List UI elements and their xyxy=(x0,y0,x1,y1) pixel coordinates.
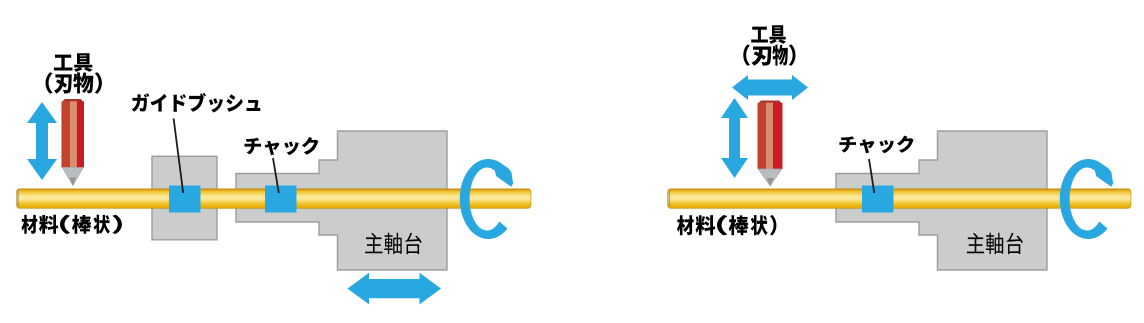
leader line chuck left xyxy=(273,158,279,193)
tool pencil right: tip cone xyxy=(758,169,782,186)
label （刃物） left xyxy=(46,72,102,94)
label チャック left xyxy=(245,137,319,155)
material bar left xyxy=(17,189,532,209)
label （刃物） right xyxy=(743,44,795,65)
tool pencil left: body xyxy=(61,99,83,168)
label 材料（棒状） left xyxy=(21,215,122,234)
leader line guide bush xyxy=(174,119,184,194)
leader line chuck right xyxy=(869,159,874,193)
label ガイドブッシュ xyxy=(132,93,261,113)
rotation arrow left xyxy=(460,159,513,239)
label 工具 right xyxy=(751,25,786,44)
label 主軸台 right xyxy=(967,233,1023,254)
label 工具 left xyxy=(54,53,93,72)
tool pencil left: tip cone xyxy=(62,168,83,186)
tool pencil right: body xyxy=(758,101,783,170)
headstock body right xyxy=(836,131,1047,270)
label 主軸台 left xyxy=(365,233,422,254)
label 材料（棒状） right xyxy=(677,215,777,235)
material bar right xyxy=(668,189,1131,209)
guide bush holder block xyxy=(152,156,217,240)
rotation arrow right xyxy=(1060,159,1113,239)
headstock body left xyxy=(236,131,447,270)
left tool vertical double arrow xyxy=(27,102,57,180)
right tool horizontal double arrow xyxy=(732,75,808,100)
guide bush blue square xyxy=(169,186,201,213)
chuck blue square left xyxy=(265,186,297,213)
chuck blue square right xyxy=(862,186,894,213)
label チャック right xyxy=(839,136,913,154)
right tool vertical double arrow xyxy=(721,98,748,178)
left headstock horizontal double arrow xyxy=(348,273,442,305)
